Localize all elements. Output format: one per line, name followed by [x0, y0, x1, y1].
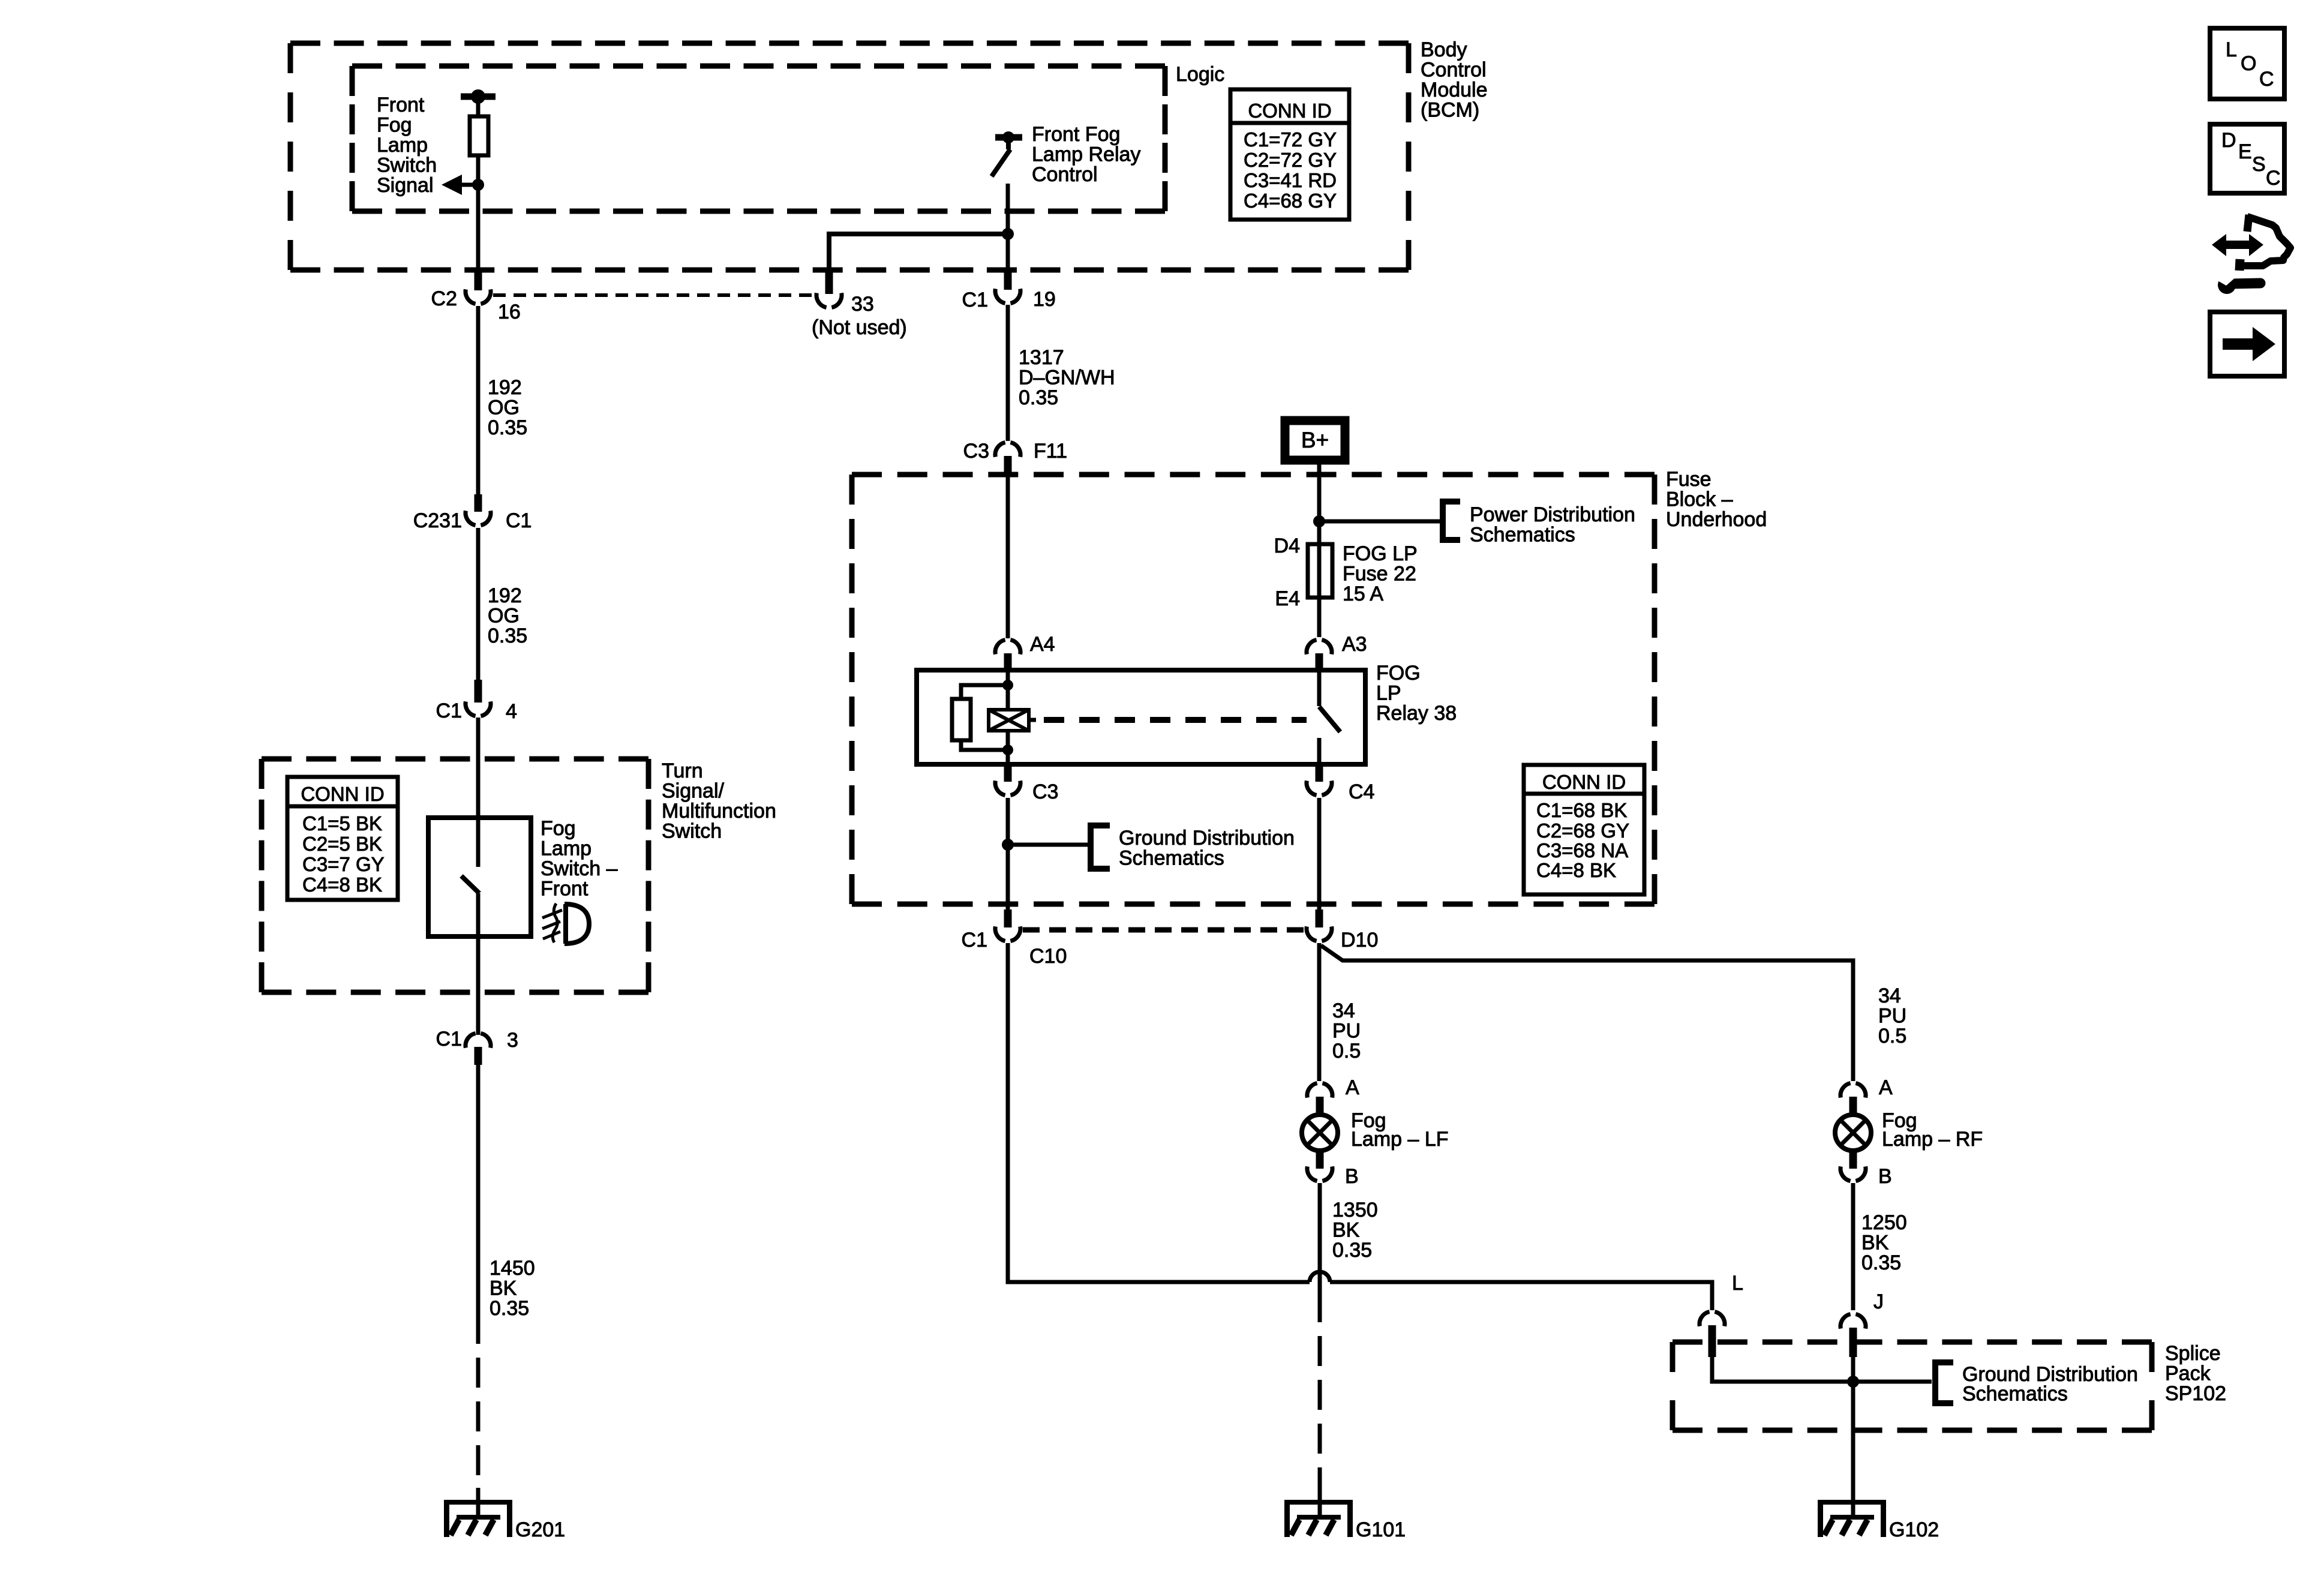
CONN ID table (fuse block) [1524, 765, 1644, 894]
svg-text:C1: C1 [962, 929, 987, 951]
svg-text:Body: Body [1421, 38, 1467, 61]
node: power distribution tap [1313, 515, 1325, 527]
svg-text:Front Fog: Front Fog [1032, 123, 1120, 146]
svg-text:G101: G101 [1356, 1518, 1406, 1541]
svg-text:Power Distribution: Power Distribution [1470, 503, 1635, 526]
svg-text:C4=68 GY: C4=68 GY [1244, 190, 1337, 212]
svg-text:OG: OG [488, 397, 520, 419]
wire: jog to pin 33 (not used) [829, 234, 1008, 272]
wire C3 down to C1/C10 [1006, 798, 1010, 909]
connector C1 C10 [995, 926, 1005, 941]
svg-text:C4=8 BK: C4=8 BK [1536, 859, 1616, 881]
node: branch junction to pin 33 [1002, 228, 1014, 240]
relay actuator dashed line [1029, 718, 1036, 722]
svg-text:B+: B+ [1301, 428, 1329, 452]
svg-text:Control: Control [1421, 59, 1487, 82]
svg-text:C3=41 RD: C3=41 RD [1244, 169, 1337, 191]
wire B+ down to fuse [1317, 464, 1322, 544]
front fog lamp switch signal input (resistor) [461, 94, 496, 100]
svg-text:(BCM): (BCM) [1421, 99, 1479, 122]
connector A3 [1307, 640, 1317, 655]
splice wires [1712, 1357, 1853, 1382]
dotted link C10-D10 [1023, 927, 1305, 933]
Fuse Block - Underhood dashed box [852, 472, 1655, 478]
wire 1317 D-GN/WH 0.35 [1006, 305, 1010, 441]
relay resistor [952, 699, 971, 740]
fog lamp switch box [428, 818, 531, 936]
svg-text:Relay 38: Relay 38 [1376, 702, 1457, 725]
svg-text:D10: D10 [1341, 929, 1378, 951]
svg-text:Module: Module [1421, 79, 1488, 101]
svg-text:Fog: Fog [541, 817, 576, 840]
fog lamp icon [542, 903, 589, 944]
svg-text:19: 19 [1033, 288, 1056, 311]
svg-text:C2=72 GY: C2=72 GY [1244, 149, 1337, 171]
svg-text:OG: OG [488, 605, 520, 628]
svg-text:L: L [2226, 38, 2237, 61]
svg-text:Front: Front [377, 94, 425, 116]
svg-text:15 A: 15 A [1343, 583, 1383, 605]
svg-text:C: C [2259, 68, 2274, 91]
svg-text:34: 34 [1332, 999, 1355, 1022]
svg-text:0.35: 0.35 [1861, 1251, 1901, 1274]
svg-text:Logic: Logic [1176, 63, 1224, 86]
svg-text:C1=72 GY: C1=72 GY [1244, 128, 1337, 151]
wire 1350 BK 0.35 [1318, 1183, 1322, 1270]
svg-text:4: 4 [506, 700, 517, 723]
svg-text:Signal/: Signal/ [662, 780, 725, 803]
Turn Signal / Multifunction Switch dashed box [262, 757, 648, 762]
svg-text:Block –: Block – [1666, 488, 1733, 511]
svg-text:C3: C3 [963, 440, 989, 463]
connector D10 [1307, 926, 1317, 941]
ground G101 [1284, 1500, 1353, 1537]
connector A (LF) [1307, 1083, 1317, 1098]
bracket: ground distribution (splice) [1932, 1362, 1938, 1403]
wire: relay control down to C1 pin19 [1006, 184, 1010, 272]
svg-text:0.5: 0.5 [1878, 1025, 1906, 1047]
svg-text:Pack: Pack [2165, 1362, 2211, 1385]
connector B (RF) [1840, 1166, 1851, 1181]
connector L [1700, 1312, 1710, 1326]
svg-text:C1: C1 [506, 509, 532, 532]
svg-text:(Not used): (Not used) [812, 316, 907, 339]
svg-text:Control: Control [1032, 163, 1098, 186]
svg-text:CONN ID: CONN ID [1248, 100, 1331, 122]
svg-text:Turn: Turn [662, 760, 703, 782]
svg-text:0.35: 0.35 [488, 625, 527, 647]
CONN ID table (switch) [287, 777, 398, 900]
svg-text:S: S [2252, 153, 2266, 176]
ground G102 [1818, 1500, 1886, 1537]
dotted link C2-33 [493, 293, 812, 297]
svg-text:SP102: SP102 [2165, 1382, 2226, 1405]
connector C1 pin 4 [466, 701, 476, 716]
svg-text:C1=68 BK: C1=68 BK [1536, 799, 1627, 821]
svg-text:Signal: Signal [377, 174, 434, 197]
svg-text:16: 16 [498, 301, 521, 323]
svg-text:Switch –: Switch – [541, 857, 618, 880]
wire 192 OG 0.35 (upper) [476, 306, 481, 494]
svg-text:Splice: Splice [2165, 1342, 2221, 1365]
icon arrow [2210, 312, 2284, 376]
svg-text:E4: E4 [1275, 587, 1300, 610]
svg-text:B: B [1345, 1165, 1359, 1188]
svg-text:D: D [2221, 129, 2236, 152]
svg-text:Fuse 22: Fuse 22 [1343, 563, 1416, 586]
svg-text:C231: C231 [413, 509, 462, 532]
svg-text:Switch: Switch [377, 154, 437, 177]
svg-text:A3: A3 [1342, 633, 1367, 656]
svg-text:C: C [2266, 167, 2281, 190]
svg-text:C1: C1 [962, 289, 988, 311]
connector C1 pin 19 [995, 289, 1005, 303]
icon vehicle/wrench [2239, 215, 2290, 271]
connector J [1840, 1314, 1851, 1329]
svg-text:Switch: Switch [662, 820, 722, 843]
wire: switch signal down to C2 [476, 185, 481, 272]
bracket: ground distribution (fuse block) [1088, 825, 1094, 869]
switch blade [461, 876, 479, 893]
svg-text:C2=5 BK: C2=5 BK [302, 833, 382, 855]
svg-text:33: 33 [851, 293, 874, 316]
svg-text:G102: G102 [1889, 1518, 1939, 1541]
svg-text:0.35: 0.35 [1332, 1239, 1372, 1262]
svg-text:L: L [1732, 1272, 1743, 1295]
wire fuse to A3 [1317, 598, 1322, 637]
svg-text:A4: A4 [1030, 633, 1055, 656]
LF lamp ground wire down to G101 [1318, 1270, 1322, 1322]
svg-text:0.35: 0.35 [490, 1297, 529, 1320]
connector A (RF) [1840, 1083, 1851, 1098]
svg-text:F11: F11 [1034, 440, 1067, 463]
svg-text:C2=68 GY: C2=68 GY [1536, 819, 1629, 842]
branch D10 to RF lamp [1321, 945, 1853, 1081]
svg-text:C3: C3 [1032, 781, 1058, 803]
svg-text:C2: C2 [431, 287, 457, 310]
svg-text:0.5: 0.5 [1332, 1040, 1361, 1062]
fog lamp RF bulb [1835, 1115, 1871, 1151]
ground bus from C1/C10 [1008, 943, 1310, 1282]
svg-text:1250: 1250 [1861, 1211, 1907, 1234]
svg-text:E: E [2238, 140, 2252, 163]
hop over LF ground wire [1310, 1272, 1330, 1282]
connector C4 (relay out) [1307, 781, 1317, 795]
svg-text:CONN ID: CONN ID [301, 783, 384, 805]
svg-text:C3=68 NA: C3=68 NA [1536, 839, 1628, 861]
svg-text:LP: LP [1376, 682, 1401, 705]
svg-text:C1: C1 [436, 1028, 462, 1050]
wire 1450 BK 0.35 [476, 1065, 481, 1344]
svg-text:PU: PU [1332, 1020, 1361, 1043]
connector C1 pin 3 [466, 1034, 476, 1048]
svg-text:BK: BK [1332, 1219, 1360, 1242]
front fog lamp relay control driver (switch symbol) [995, 134, 1022, 141]
svg-text:G201: G201 [515, 1518, 565, 1541]
svg-text:C10: C10 [1029, 945, 1067, 968]
svg-text:CONN ID: CONN ID [1542, 771, 1626, 793]
B+ battery feed box [1285, 421, 1345, 460]
wire into switch [476, 718, 481, 867]
svg-text:1317: 1317 [1019, 346, 1064, 369]
wire F11 down to relay A4 [1006, 476, 1010, 638]
svg-text:C4: C4 [1349, 781, 1374, 803]
fog lamp LF bulb [1302, 1115, 1338, 1151]
svg-text:J: J [1873, 1290, 1884, 1313]
relay switch contacts [1317, 670, 1322, 706]
Splice Pack SP102 dashed box [1673, 1340, 2152, 1345]
svg-text:Lamp – LF: Lamp – LF [1351, 1128, 1449, 1151]
connector C3 (relay out) [995, 781, 1005, 795]
svg-text:BK: BK [1861, 1232, 1889, 1254]
connector B (LF) [1307, 1166, 1317, 1181]
svg-text:C3=7 GY: C3=7 GY [302, 853, 385, 875]
svg-text:B: B [1878, 1165, 1892, 1188]
svg-text:A: A [1346, 1076, 1359, 1099]
svg-text:BK: BK [490, 1277, 517, 1300]
wire 192 OG 0.35 (lower) [476, 528, 481, 680]
svg-text:1450: 1450 [490, 1257, 535, 1280]
svg-text:Lamp: Lamp [377, 134, 428, 157]
svg-text:192: 192 [488, 376, 522, 399]
svg-text:Schematics: Schematics [1470, 524, 1575, 547]
svg-text:Front: Front [541, 878, 588, 900]
svg-text:Fuse: Fuse [1666, 468, 1712, 491]
svg-text:C4=8 BK: C4=8 BK [302, 873, 382, 896]
connector A4 [995, 640, 1005, 655]
relay coil branch [1006, 670, 1010, 710]
connector C231 C1 [466, 511, 476, 525]
wire 1250 BK 0.35 [1851, 1183, 1855, 1310]
svg-text:A: A [1879, 1076, 1893, 1099]
svg-text:34: 34 [1878, 984, 1901, 1007]
svg-text:C1=5 BK: C1=5 BK [302, 812, 382, 834]
wire D10 down to LF lamp [1317, 943, 1322, 1081]
svg-text:0.35: 0.35 [488, 416, 527, 439]
CONN ID table (BCM) [1230, 89, 1349, 220]
bracket: power distribution [1440, 502, 1446, 540]
FOG LP Relay 38 box [917, 670, 1365, 764]
BCM Logic dashed box [352, 64, 1165, 69]
svg-text:Schematics: Schematics [1119, 847, 1224, 870]
connector C3 F11 [995, 443, 1005, 457]
connector 33 (Not used) [816, 293, 827, 307]
svg-text:Ground Distribution: Ground Distribution [1119, 827, 1295, 849]
svg-text:C1: C1 [436, 700, 462, 722]
svg-text:D–GN/WH: D–GN/WH [1019, 367, 1115, 389]
svg-text:O: O [2241, 52, 2256, 75]
svg-text:Lamp – RF: Lamp – RF [1882, 1128, 1983, 1151]
icon DESC [2210, 124, 2284, 193]
svg-text:D4: D4 [1274, 535, 1300, 557]
wire C4 down to D10 [1317, 798, 1322, 909]
svg-text:PU: PU [1878, 1005, 1906, 1028]
svg-text:Lamp Relay: Lamp Relay [1032, 143, 1140, 166]
svg-text:0.35: 0.35 [1019, 386, 1058, 409]
ground G201 [444, 1500, 512, 1537]
svg-text:Underhood: Underhood [1666, 508, 1767, 531]
node: switch signal junction + arrow [472, 179, 484, 191]
svg-text:Multifunction: Multifunction [662, 800, 776, 822]
relay coil (X box) [989, 710, 1029, 731]
svg-text:Lamp: Lamp [541, 837, 591, 860]
svg-text:1350: 1350 [1332, 1199, 1378, 1221]
svg-text:FOG LP: FOG LP [1343, 542, 1418, 565]
svg-text:Fog: Fog [377, 114, 412, 137]
Body Control Module (BCM) dashed box [290, 41, 1409, 46]
icon LOC [2210, 28, 2284, 99]
svg-text:192: 192 [488, 584, 522, 607]
fuse FOG LP Fuse 22 15A [1308, 544, 1332, 598]
svg-text:Schematics: Schematics [1962, 1383, 2068, 1406]
svg-text:3: 3 [507, 1029, 518, 1052]
connector C2 pin 16 [466, 289, 476, 304]
svg-text:FOG: FOG [1376, 662, 1421, 685]
node: ground distribution tap [1002, 839, 1014, 851]
